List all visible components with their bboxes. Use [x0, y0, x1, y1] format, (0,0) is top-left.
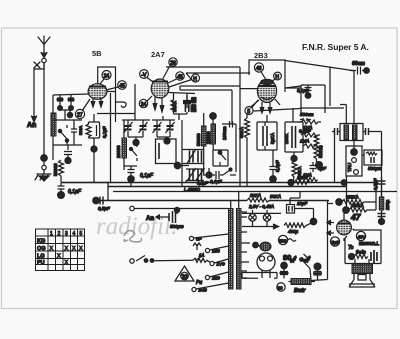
capacitor C3 [71, 120, 77, 145]
main bus 1 [61, 182, 378, 184]
svg-text:PU: PU [37, 260, 45, 266]
junction dot [174, 207, 179, 212]
svg-text:An: An [27, 122, 36, 129]
capacitor C22 [332, 128, 340, 135]
junction dot [174, 162, 180, 168]
filter capacitor C32 [313, 263, 322, 279]
svg-text:500: 500 [279, 239, 287, 244]
speaker magnet frame [349, 274, 375, 288]
switch S3 [218, 151, 226, 166]
pin H circle [169, 74, 200, 87]
capacitor C23 [363, 128, 371, 135]
svg-text:50KA: 50KA [250, 193, 261, 198]
pin 26 circle [163, 58, 177, 79]
volume pot box [346, 146, 362, 176]
junction dot [41, 155, 47, 161]
svg-text:Butr: Butr [294, 288, 306, 294]
capacitor C4 [64, 145, 72, 164]
mains tap 220 [205, 272, 228, 281]
svg-text:X: X [65, 246, 69, 252]
svg-text:0,1µF: 0,1µF [68, 189, 82, 195]
wire [180, 165, 189, 167]
svg-text:20000: 20000 [116, 145, 121, 158]
wire x182 vertical [181, 120, 183, 186]
tube T3 box [249, 60, 285, 92]
capacitor C9 [124, 166, 137, 187]
filter capacitor C31 [280, 268, 289, 279]
heater top wire [242, 212, 281, 214]
svg-text:500µω: 500µω [170, 224, 184, 229]
svg-text:1: 1 [50, 231, 53, 237]
svg-text:10µF: 10µF [297, 201, 307, 206]
svg-text:LG: LG [37, 254, 45, 260]
wire nested box a [186, 72, 250, 74]
svg-text:Pu: Pu [196, 280, 202, 286]
warning triangle [175, 266, 194, 281]
rectifier tube 80 [257, 253, 275, 278]
svg-text:1MA: 1MA [303, 173, 312, 178]
wire grid 58 [82, 99, 90, 111]
IF can 2 wire top [152, 116, 175, 120]
wire [157, 137, 170, 139]
resistor R11 [303, 144, 320, 148]
capacitor C27 [378, 177, 386, 188]
svg-text:250 cm: 250 cm [192, 97, 197, 112]
capacitor C14 [198, 151, 202, 163]
mains tap B40 [192, 283, 229, 293]
pin 48 circle [254, 63, 265, 79]
junction dot [281, 262, 287, 268]
wire top transformer [231, 192, 239, 210]
junction dot [349, 254, 355, 260]
power transformer secondary [237, 209, 242, 290]
resistor R5 [202, 113, 207, 168]
capacitor C17 [212, 171, 223, 179]
wire 2A7 top bus [166, 67, 240, 86]
junction dot [164, 138, 170, 144]
svg-text:0,1µF: 0,1µF [297, 88, 309, 93]
wire [182, 150, 204, 164]
junction dot [316, 162, 323, 169]
resistor R7 50k [245, 113, 250, 143]
svg-text:250KA: 250KA [351, 203, 364, 208]
svg-text:An: An [146, 216, 154, 222]
resistor R16 250k [343, 207, 371, 213]
wire cathode [93, 114, 95, 146]
output transformer box [345, 230, 381, 264]
switch S6 bottom left [300, 254, 311, 281]
wire right column [362, 132, 382, 222]
resistor R6 [211, 124, 216, 150]
svg-text:0,1µF: 0,1µF [210, 179, 222, 184]
svg-text:0,5µF: 0,5µF [98, 206, 110, 211]
resistor R3 20000 [122, 120, 127, 170]
svg-text:2B3: 2B3 [254, 51, 268, 60]
svg-text:100K: 100K [284, 133, 289, 144]
wire diagonal H [186, 73, 192, 80]
wire An terminal [32, 112, 37, 122]
resistor R15 250k [336, 199, 368, 205]
svg-text:L.4000Ω: L.4000Ω [184, 187, 201, 192]
watermark clef squiggle [124, 231, 141, 242]
trimmer capacitor C7 [124, 120, 133, 137]
capacitor C12 [185, 97, 188, 114]
svg-text:200µ: 200µ [385, 199, 390, 210]
capacitor C34 speaker [371, 250, 377, 263]
svg-text:400µ: 400µ [288, 229, 299, 234]
wire right drop [353, 71, 355, 124]
resistor R8 100K [292, 161, 297, 183]
resistor squiggle [193, 243, 203, 260]
svg-text:0,1µF: 0,1µF [275, 160, 280, 172]
svg-text:4µF: 4µF [318, 166, 326, 171]
tube T1 box [97, 67, 135, 122]
resistor R20 [304, 178, 318, 182]
resistor R14 [284, 222, 314, 228]
main bus 4 [99, 200, 329, 202]
capacitor C18 [263, 122, 267, 150]
resistor R1 50000 [59, 160, 64, 182]
grid arrow 2 [327, 231, 334, 236]
wire nested box b [180, 86, 240, 186]
svg-text:50000: 50000 [53, 163, 58, 176]
tube T1 58 [88, 84, 107, 107]
pin V circle [140, 70, 153, 82]
svg-text:50KA: 50KA [239, 127, 244, 138]
svg-text:TRU: TRU [347, 163, 352, 172]
capacitor C16 [222, 121, 236, 172]
capacitor C36 [187, 168, 196, 181]
pot terminal [352, 158, 357, 163]
svg-text:250KA: 250KA [346, 195, 359, 200]
wire IF left [340, 105, 354, 151]
dial lamp 2 [263, 210, 270, 227]
capacitor C1 [57, 95, 64, 110]
resistor R13 heater [247, 198, 272, 202]
switch S4 [223, 168, 236, 175]
junction dot [91, 146, 97, 152]
svg-text:0,1µF: 0,1µF [140, 173, 154, 179]
svg-text:4: 4 [73, 231, 76, 237]
svg-text:20: 20 [182, 275, 188, 281]
svg-text:20KA: 20KA [172, 101, 177, 112]
mains plug [287, 192, 314, 220]
resistor R4 [171, 97, 176, 114]
filter choke [289, 279, 316, 285]
wire to ground [42, 161, 46, 174]
pin 45 circle [168, 72, 184, 83]
wire [246, 143, 248, 186]
mains fuse 1A [193, 253, 211, 263]
pot dot [351, 149, 357, 155]
mains switch S5 [130, 256, 193, 264]
capacitor C30 pickup [166, 211, 176, 223]
junction dot bus1b [341, 180, 347, 186]
wire [186, 169, 204, 183]
IF transformer T2 box [340, 124, 363, 141]
capacitor C37 [196, 168, 205, 181]
under-chassis box [242, 273, 277, 279]
svg-text:F.N.R. Super 5 A.: F.N.R. Super 5 A. [302, 42, 369, 52]
wire plate 58 to coupling [107, 92, 116, 183]
junction dot [133, 140, 139, 146]
pin 24 circle [100, 71, 112, 85]
junction dot bus1 [288, 180, 294, 186]
antenna coil L1 right wire [43, 63, 45, 155]
wire 2D3 out [285, 85, 301, 100]
svg-text:2,5V - 0,45A: 2,5V - 0,45A [248, 204, 274, 209]
diode load box 2 [285, 108, 303, 152]
svg-text:48: 48 [256, 66, 262, 72]
node X antenna tap [34, 62, 40, 68]
svg-text:100cm: 100cm [222, 126, 227, 140]
IF coil secondary [353, 125, 358, 140]
diode load box 1 [257, 115, 277, 150]
pin 27 circle [75, 109, 84, 118]
wire loop [213, 150, 228, 166]
resistor R18 [354, 254, 368, 259]
wire right joins [368, 187, 376, 211]
capacitor C25 [310, 162, 317, 172]
svg-text:2A7: 2A7 [151, 50, 165, 59]
mains tap 0P [189, 234, 228, 242]
pilot 500 circle [278, 235, 296, 244]
svg-text:50000: 50000 [318, 145, 323, 158]
capacitor C15 [183, 95, 191, 108]
svg-text:47: 47 [350, 212, 362, 222]
junction dot [310, 218, 316, 224]
pin 24 circle [139, 96, 152, 108]
capacitor C13 [187, 149, 196, 164]
svg-text:2: 2 [58, 231, 61, 237]
resistor R2 500 [86, 122, 91, 138]
svg-text:5: 5 [80, 231, 83, 237]
svg-text:1MA: 1MA [300, 139, 309, 144]
antenna coil L1 left wire [34, 63, 44, 112]
svg-text:24: 24 [141, 102, 147, 108]
capacitor C33 [378, 214, 386, 225]
ground [35, 174, 51, 181]
wire [93, 152, 95, 183]
wire left verticals [135, 84, 300, 120]
svg-text:26: 26 [170, 61, 176, 67]
svg-text:50KA: 50KA [270, 194, 281, 199]
resistor R10 [301, 133, 320, 137]
pin 5 circle [245, 100, 258, 115]
coil L2 tuning [51, 113, 56, 160]
svg-text:27: 27 [77, 113, 83, 119]
circled 40 [356, 231, 365, 240]
wire top input [53, 94, 89, 95]
resistor R17 right hatched [379, 188, 384, 212]
An arrow [156, 215, 166, 220]
svg-text:X: X [65, 260, 69, 266]
svg-text:1A: 1A [199, 253, 204, 258]
svg-text:H: H [275, 75, 279, 81]
svg-text:5B: 5B [92, 49, 102, 58]
top right capacitor 60cm [350, 67, 369, 75]
IF can 1 wire top [122, 119, 150, 121]
trimmer capacitor C11 [166, 120, 175, 137]
resistor R19 on bus [294, 180, 310, 185]
mains tap 150 [205, 246, 228, 254]
trimmer capacitor C8 [139, 120, 148, 137]
wire [128, 137, 143, 140]
svg-text:500A: 500A [78, 125, 83, 135]
rectifier tube 80 filament [253, 242, 271, 251]
wire [52, 95, 54, 113]
tube T3 2D3 [250, 79, 280, 113]
svg-text:KG: KG [37, 239, 45, 245]
mains tap 110 [210, 259, 229, 267]
dial lamp 1 [249, 210, 256, 227]
wire [204, 168, 209, 175]
resistor R9 1M [298, 120, 321, 124]
svg-text:40V: 40V [358, 235, 366, 240]
tube T5 47 [337, 212, 352, 235]
switch S1 [58, 125, 68, 145]
antenna [38, 36, 50, 63]
wire loop [53, 110, 82, 145]
svg-text:20000: 20000 [206, 131, 211, 144]
svg-text:3: 3 [65, 231, 68, 237]
capacitor C6 [89, 122, 100, 138]
svg-text:5µF: 5µF [332, 240, 340, 245]
transformer stubs right [241, 212, 250, 278]
svg-text:5µKA: 5µKA [270, 133, 275, 144]
capacitor C26 [366, 152, 377, 163]
capacitor C24 top500 [300, 118, 311, 121]
power transformer primary [229, 209, 234, 290]
svg-text:5: 5 [247, 109, 250, 115]
svg-text:E2000Ω⊥: E2000Ω⊥ [359, 241, 379, 246]
trimmer capacitor C10 [153, 120, 162, 137]
main bus 2 [108, 186, 346, 188]
speaker field coil [352, 259, 373, 274]
wire 2A7 plate [169, 93, 196, 121]
wavechange table [36, 229, 85, 271]
wire to output stage [344, 229, 354, 242]
main bus 3 [113, 191, 397, 193]
heater wire arrow [242, 224, 279, 229]
capacitor C28 bus end [93, 197, 103, 205]
capacitor C5 [58, 183, 65, 199]
capacitor C2 [67, 95, 74, 118]
svg-text:60cm: 60cm [352, 61, 365, 67]
svg-text:0,5µF: 0,5µF [299, 129, 311, 134]
svg-text:24: 24 [104, 74, 110, 80]
grid arrow 1 [327, 220, 334, 225]
svg-text:X: X [57, 254, 61, 260]
pickup wire [130, 206, 228, 214]
svg-text:OG: OG [37, 246, 46, 252]
pin 45 circle [106, 81, 126, 90]
capacitor C21 [305, 85, 312, 98]
svg-text:50000: 50000 [196, 133, 201, 146]
svg-text:-V: -V [141, 73, 147, 79]
switch S2 [130, 144, 138, 161]
clip symbol [116, 102, 126, 107]
svg-text:100KA: 100KA [297, 166, 302, 180]
junction dot [210, 113, 216, 119]
circled 5u [330, 237, 339, 246]
wire nested box c [180, 90, 232, 124]
svg-text:X: X [50, 246, 54, 252]
detector box [301, 85, 325, 113]
tube T2 2A7 [151, 79, 169, 112]
wire B plus drop [311, 176, 347, 281]
junction dot [291, 156, 297, 162]
svg-text:X: X [72, 246, 76, 252]
circled 30 [277, 283, 285, 291]
capacitor C19 [292, 126, 296, 156]
wire mid verticals [330, 67, 335, 183]
svg-text:45: 45 [119, 84, 125, 90]
pin H circle [271, 72, 281, 82]
tone box [364, 150, 382, 165]
wire bus AVC [61, 183, 108, 201]
wire [212, 119, 214, 124]
resistor R12 vertical zigzag [314, 135, 319, 162]
oscillator coil box [156, 139, 177, 164]
IF coil primary [344, 125, 349, 140]
svg-text:30: 30 [278, 286, 284, 291]
svg-text:500µω: 500µω [368, 166, 382, 171]
svg-text:H: H [193, 77, 197, 83]
svg-text:45: 45 [177, 75, 183, 81]
wire 2D3 plate out [285, 61, 354, 109]
capacitor C20 [270, 150, 277, 183]
junction dot [206, 172, 212, 178]
svg-text:0,1µF: 0,1µF [102, 126, 107, 138]
svg-text:X: X [79, 246, 83, 252]
svg-text:500cm: 500cm [300, 112, 314, 117]
svg-text:To: To [348, 245, 354, 251]
pot terminal bottom [354, 170, 359, 175]
